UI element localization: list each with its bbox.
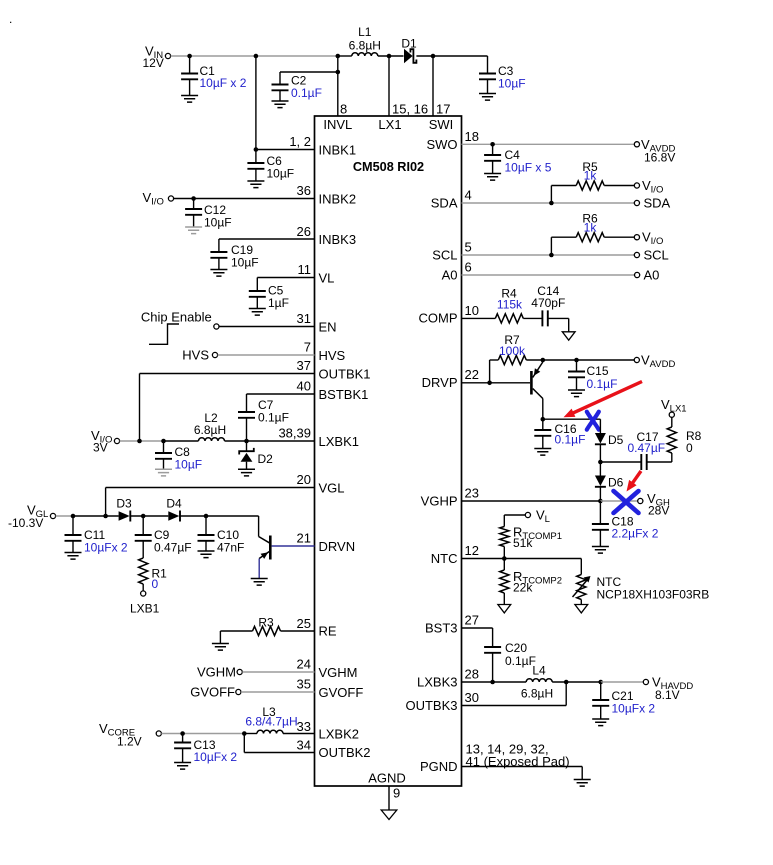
svg-text:8.1V: 8.1V [655,688,680,702]
node SDA terminal [634,196,670,211]
svg-text:6.8/4.7µH: 6.8/4.7µH [245,715,297,729]
pin label LX1 [378,117,401,132]
resistor R3 [253,616,281,636]
svg-text:34: 34 [297,738,311,753]
svg-text:6.8µH: 6.8µH [521,687,553,701]
svg-text:RE: RE [319,624,337,639]
wire rail to L1 [338,55,352,57]
svg-text:33: 33 [297,719,311,734]
wire VGL rail a [73,515,119,517]
wire COMP pin 10 [419,303,496,326]
capacitor C11 [65,516,128,559]
node VAVDD terminal [634,137,675,165]
svg-text:0.1µF: 0.1µF [291,86,322,100]
svg-text:6: 6 [465,260,472,275]
svg-text:1k: 1k [584,169,598,183]
junction C10 [204,514,209,519]
wire junction to D6 [599,462,601,476]
svg-text:GVOFF: GVOFF [190,685,235,700]
svg-text:18: 18 [465,129,479,144]
svg-text:115k: 115k [497,298,523,312]
svg-text:NTC: NTC [431,551,458,566]
wire VL branch [504,515,525,527]
svg-text:100k: 100k [499,344,526,358]
svg-text:VGHM: VGHM [319,665,358,680]
svg-text:10µF: 10µF [231,256,259,270]
svg-text:24: 24 [297,657,311,672]
wire INBK3 pin 26 [219,224,356,252]
svg-text:.: . [9,12,12,26]
svg-text:6.8µH: 6.8µH [194,423,226,437]
wire DRVP to R7 [490,360,499,383]
capacitor C1 [181,56,247,102]
svg-text:7: 7 [304,340,311,355]
diode D6 [595,476,624,490]
svg-text:35: 35 [297,677,311,692]
wire DRVN pin 21 navy [272,531,356,555]
svg-text:LXB1: LXB1 [130,602,160,616]
svg-text:37: 37 [297,358,311,373]
svg-text:0.47µF: 0.47µF [628,441,666,455]
capacitor C17 [600,430,671,470]
annotation red arrow 2 [627,471,642,492]
svg-text:12V: 12V [143,56,164,70]
svg-text:0: 0 [152,577,159,591]
cross-out X1 blue [587,412,599,430]
capacitor C20 [484,641,536,682]
wire L4 to C21 [552,680,603,685]
inductor L1 [349,25,381,56]
node VL terminal [525,508,550,525]
svg-text:12: 12 [465,543,479,558]
node HVS terminal [182,348,217,363]
wire D4 to Q1 [179,515,258,517]
svg-text:27: 27 [465,613,479,628]
svg-text:25: 25 [297,616,311,631]
svg-text:10µF x 5: 10µF x 5 [505,161,552,175]
capacitor C13 [174,734,237,770]
svg-text:SWO: SWO [426,137,457,152]
svg-text:23: 23 [465,486,479,501]
node VLX1 terminal [661,397,687,417]
svg-text:1k: 1k [584,220,598,234]
svg-text:15, 16: 15, 16 [392,102,428,117]
svg-text:1, 2: 1, 2 [289,134,311,149]
svg-text:COMP: COMP [419,311,458,326]
junction C8 [161,439,166,444]
wire AGND pin 9 [368,771,406,811]
svg-text:PGND: PGND [420,759,458,774]
wire LX1 pins 15 16 [389,56,428,117]
node VIO terminal R6 [634,230,663,247]
svg-text:10µFx 2: 10µFx 2 [612,702,656,716]
svg-text:20: 20 [297,472,311,487]
wire LXBK2 rail gray [161,733,244,735]
svg-text:0.1µF: 0.1µF [258,411,289,425]
wire LXBK1 rail gray [120,440,164,442]
svg-text:INVL: INVL [323,117,352,132]
wire PGND pin [420,759,582,780]
node LXB1 terminal [130,591,160,616]
wire rail to L3 [244,733,257,735]
wire GVOFF pin 35 gray [241,677,363,701]
svg-text:VGL: VGL [319,481,345,496]
wire R5 branch [551,186,576,204]
svg-text:11: 11 [298,262,312,277]
capacitor C12 [185,199,231,234]
node VGL terminal [8,503,56,531]
annotation red arrow 1 [564,382,643,418]
node A0 terminal [635,268,660,283]
capacitor C5 [249,284,289,316]
node VIO terminal INBK2 [143,190,174,207]
capacitor C3 [479,56,526,100]
resistor R1 [139,558,168,591]
wire SWI pin 17 [433,56,450,117]
resistor RTCOMP1 [500,525,562,551]
node EN terminal [214,324,219,329]
wire L3 to LXBK2 pin 33 [283,719,359,742]
svg-text:VGHP: VGHP [421,494,458,509]
node VGH terminal [638,491,670,518]
diode D4 [166,497,182,522]
capacitor C2 [272,72,322,108]
resistor R5 [576,160,604,190]
svg-text:36: 36 [297,183,311,198]
junction D2 C7 [244,439,249,444]
pin label INVL [323,117,352,132]
svg-text:EN: EN [319,320,337,335]
wire C2 branch [280,70,340,75]
svg-text:SDA: SDA [644,196,671,211]
svg-text:D3: D3 [116,497,132,511]
wire OUTBK1 pin 37 [140,358,371,441]
svg-text:0.1µF: 0.1µF [505,654,536,668]
capacitor C6 [247,150,294,188]
junction C1 [187,54,192,59]
svg-text:HVS: HVS [182,348,209,363]
svg-text:R3: R3 [258,616,274,630]
wire VGHM pin 24 gray [242,657,357,681]
svg-text:D4: D4 [166,497,182,511]
svg-text:LX1: LX1 [378,117,401,132]
svg-text:10µF: 10µF [498,77,526,91]
svg-text:D5: D5 [608,433,624,447]
svg-text:VL: VL [319,271,335,286]
capacitor C14 [523,284,568,326]
svg-text:A0: A0 [644,268,660,283]
svg-text:HVS: HVS [319,348,346,363]
svg-text:DRVP: DRVP [422,375,458,390]
wire R7 rail to VAVDD [526,358,634,363]
svg-text:10: 10 [465,303,479,318]
capacitor C10 [198,516,245,558]
svg-text:BSTBK1: BSTBK1 [319,387,369,402]
ground PGND [574,780,591,787]
svg-text:Chip Enable: Chip Enable [141,310,212,325]
wire LXBK3 pin 28 [417,667,526,690]
wire OUTBK3 pin 30 [405,682,566,713]
wire C14 to ground [568,318,570,331]
svg-text:C15: C15 [587,364,609,378]
capacitor C8 [155,441,202,476]
svg-text:DRVN: DRVN [319,539,356,554]
svg-text:40: 40 [297,379,311,394]
svg-text:C20: C20 [505,641,527,655]
svg-text:0.47µF: 0.47µF [154,541,192,555]
capacitor C18 [592,501,659,553]
svg-text:0.1µF: 0.1µF [555,433,586,447]
svg-text:BST3: BST3 [425,621,458,636]
transistor Q1 PNP DRVN [251,516,271,585]
svg-text:10µF: 10µF [175,458,203,472]
svg-text:28V: 28V [648,504,669,518]
capacitor C19 [210,243,258,276]
svg-text:SWI: SWI [429,117,454,132]
svg-text:OUTBK1: OUTBK1 [319,367,371,382]
wire LXBK1 rail to L2 [164,440,199,442]
svg-text:L1: L1 [358,25,372,39]
diode D2 schottky [238,441,273,476]
wire R5 to VIO [604,185,634,187]
wire INBK2 pin 36 [174,183,356,207]
svg-text:D6: D6 [608,476,624,490]
capacitor C9 [135,516,192,558]
diode D1 schottky [401,37,417,64]
wire DRVP pin 22 [422,367,530,390]
wire A0 pin 6 gray [442,260,635,283]
svg-text:4: 4 [465,188,472,203]
svg-text:3V: 3V [93,441,108,455]
wire INVL pin 8 [338,56,347,117]
wire RE left [220,631,252,644]
svg-text:10µF x 2: 10µF x 2 [200,76,247,90]
inductor L4 [521,664,553,701]
ground RE [212,644,229,651]
svg-text:22: 22 [465,367,479,382]
node VIO terminal R5 [634,178,663,195]
svg-text:D1: D1 [401,37,417,51]
wire RE pin 25 [281,616,337,639]
svg-text:D2: D2 [258,452,274,466]
wire R6 to VIO [604,236,634,238]
svg-text:INBK2: INBK2 [319,192,357,207]
junction VGL pin branch [103,514,108,519]
wire D5 to junction [598,444,603,464]
wire VL pin 11 [257,262,334,291]
svg-text:26: 26 [297,224,311,239]
svg-text:-10.3V: -10.3V [8,516,43,530]
wire BSTBK1 pin 40 [247,379,369,413]
node VIO 3V terminal LXBK1 [91,428,120,455]
ground RTCOMP2 arrow [498,593,511,613]
wire NTC pin 12 [431,543,582,566]
svg-text:51k: 51k [513,536,533,550]
diode D5 [595,433,624,447]
svg-text:47nF: 47nF [217,541,244,555]
wire D6 to VGHP rail [599,487,601,501]
svg-text:1.2V: 1.2V [117,735,142,749]
resistor R6 [576,212,604,242]
junction INBK1 branch [254,54,259,59]
svg-text:0.1µF: 0.1µF [587,377,618,391]
wire SWO pin 18 gray [426,129,634,152]
svg-text:NCP18XH103F03RB: NCP18XH103F03RB [597,588,710,602]
svg-text:16.8V: 16.8V [644,151,675,165]
wire SDA pin 4 gray [431,188,635,211]
svg-text:8: 8 [340,102,347,117]
svg-text:38,39: 38,39 [278,426,311,441]
wire VGL pin 20 [106,472,345,516]
svg-text:L4: L4 [532,664,546,678]
resistor RTCOMP2 [500,559,562,595]
svg-text:21: 21 [297,531,311,546]
svg-text:INBK1: INBK1 [319,143,357,158]
capacitor C21 [592,682,655,726]
node GVOFF terminal [190,685,241,700]
junction SWI [431,54,436,59]
wire R6 branch [551,237,576,255]
wire RTCOMP1 to NTC rail [502,547,507,561]
svg-text:VGHM: VGHM [197,665,236,680]
svg-text:SDA: SDA [431,196,458,211]
svg-text:10µFx 2: 10µFx 2 [84,541,128,555]
node VCORE terminal [99,721,161,749]
junction C11 [71,514,76,519]
node VAVDD terminal 2 [634,353,675,370]
capacitor C7 [238,398,289,441]
wire VGHP to VGH gray [600,500,637,502]
inductor L3 [245,705,297,734]
ground NTC arrow [575,600,588,613]
wire HVS pin 7 gray [218,340,346,364]
svg-text:A0: A0 [442,268,458,283]
wire VIN rail gray [171,55,338,57]
resistor R8 [667,427,701,455]
svg-text:OUTBK3: OUTBK3 [405,698,457,713]
svg-text:470pF: 470pF [531,296,565,310]
junction C9 [141,514,146,519]
ground C14 arrow [562,332,575,340]
svg-text:17: 17 [436,102,450,117]
chip enable waveform symbol [141,310,212,345]
svg-text:5: 5 [465,240,472,255]
junction INVL [336,54,341,59]
svg-text:0: 0 [686,441,693,455]
svg-text:SCL: SCL [644,248,669,263]
wire INBK1 pin 1 2 [254,134,356,158]
svg-text:31: 31 [297,311,311,326]
capacitor C15 [568,360,617,397]
junction OUTBK1 on rail [137,439,142,444]
svg-text:INBK3: INBK3 [319,232,357,247]
wire C21 to VHAVDD gray [601,681,644,683]
capacitor C16 [534,419,585,455]
capacitor C4 [484,144,552,180]
junction OUTBK2 branch [242,731,247,736]
diode D3 [116,497,132,522]
wire rail to D5 [599,419,601,433]
wire VGHP pin 23 [421,486,603,509]
node VGHM terminal [197,665,242,680]
resistor R7 [498,333,526,365]
svg-text:OUTBK2: OUTBK2 [319,745,371,760]
svg-text:30: 30 [465,690,479,705]
svg-text:LXBK1: LXBK1 [319,434,359,449]
svg-text:6.8µH: 6.8µH [349,39,381,53]
node SCL terminal [634,248,668,263]
svg-text:10µFx 2: 10µFx 2 [194,750,238,764]
svg-text:9: 9 [393,786,400,801]
node VIN terminal [143,44,171,71]
svg-text:LXBK3: LXBK3 [417,675,457,690]
svg-text:28: 28 [465,667,479,682]
junction LX1 [387,54,392,59]
wire R8 to VLX1 [671,417,673,427]
wire C17 to R8 [671,453,673,462]
wire L1 to D1 [378,55,404,57]
wire OUTBK2 pin 34 [244,734,370,761]
svg-text:AGND: AGND [368,771,406,786]
pin label SWI [429,117,454,132]
svg-text:2.2µFx 2: 2.2µFx 2 [612,527,659,541]
wire BST3 pin 27 [425,613,493,648]
label exposed pad pins [466,742,570,770]
stray dot [9,12,12,26]
wire SCL pin 5 gray [432,240,634,263]
svg-text:LXBK2: LXBK2 [319,727,359,742]
wire D1 to C3 [416,55,487,57]
wire D3 to C9 [130,515,169,517]
ground AGND arrow [381,810,397,820]
junction C13 [180,731,185,736]
wire L2 to LXBK1 pin 38 39 [225,426,359,450]
cross-out X2 blue [614,491,639,513]
IC U1 CM508 RI02 body [315,116,462,786]
svg-text:10µF: 10µF [267,167,295,181]
wire EN pin 31 [219,311,337,335]
thermistor NTC [573,559,710,602]
svg-text:CM508 RI02: CM508 RI02 [353,160,424,174]
wire VGL rail gray [56,515,73,517]
transistor Q2 PNP DRVP [531,360,542,419]
wire INBK1 branch vertical [255,56,257,150]
node VHAVDD terminal [643,675,693,703]
svg-text:1µF: 1µF [268,296,289,310]
svg-text:GVOFF: GVOFF [319,685,364,700]
svg-text:SCL: SCL [432,248,457,263]
svg-text:22k: 22k [513,581,533,595]
svg-text:10µF: 10µF [204,216,232,230]
inductor L2 [194,411,226,441]
wire C16 rail [541,417,601,422]
resistor R4 [495,287,523,324]
